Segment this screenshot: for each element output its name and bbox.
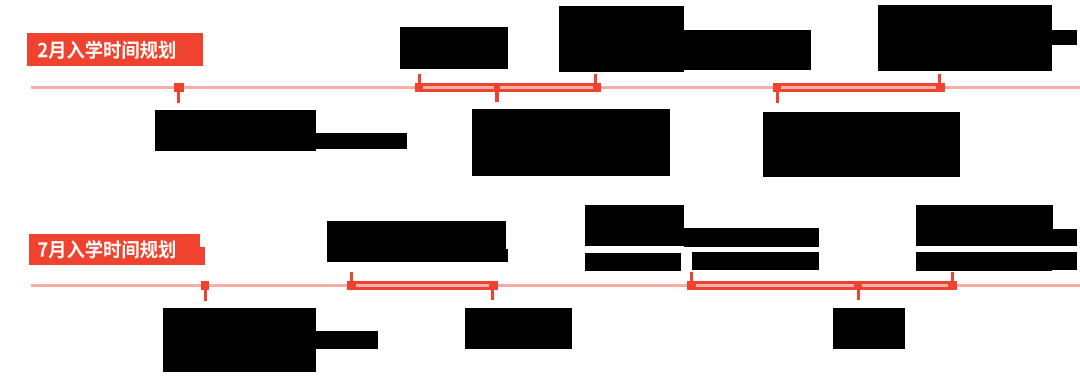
timeline 1 label text: 2月入学时间规划	[27, 33, 203, 67]
timeline 2 range bracket B3 body	[347, 281, 498, 290]
bracket B2 left stem down	[776, 92, 779, 103]
bracket B1 right tick up	[594, 74, 597, 84]
timeline 2 baseline (pink)	[31, 284, 1080, 287]
timeline 1 baseline (pink)	[31, 86, 1080, 89]
redacted caption L2 (below bracket B1)	[472, 109, 670, 175]
bracket B1 middle stem down	[495, 92, 499, 102]
bracket B3 left end cap	[347, 281, 356, 290]
timeline 2 range bracket B4 body	[687, 281, 958, 290]
timeline 2 label plate tab	[199, 247, 205, 266]
timeline 2 milestone marker M2 square	[201, 281, 209, 290]
bracket B4 middle stem down	[857, 290, 860, 301]
redacted block E1	[916, 205, 1053, 246]
redacted caption G2 (below bracket B3)	[465, 308, 572, 350]
timeline 2 milestone marker M2 stem	[204, 290, 207, 301]
redacted block D2	[684, 228, 819, 247]
bracket B4 middle divider cap	[854, 283, 862, 290]
bracket B2 left end cap	[773, 83, 782, 92]
bracket B2 right tick up	[938, 74, 941, 83]
timeline 1 label plate: 2月入学时间规划	[27, 33, 203, 66]
redacted caption L3 (below bracket B2)	[763, 112, 960, 177]
bracket B1 left end cap	[415, 83, 423, 92]
redacted block D1	[585, 205, 684, 246]
bracket B4 left tick up	[690, 272, 693, 281]
bracket B4 right end cap	[948, 281, 957, 290]
redacted block C2 tab	[1052, 30, 1077, 45]
bracket B4 right tick up	[951, 272, 954, 281]
redacted caption G1b continuation	[316, 331, 379, 349]
redacted block E2 tab	[1053, 229, 1077, 246]
redacted caption L1a (below marker M1)	[155, 110, 316, 151]
redacted block D4	[692, 252, 819, 270]
timeline 1 milestone marker M1 square	[174, 83, 184, 92]
bracket B3 left tick up	[350, 272, 353, 282]
redacted block F tab	[506, 249, 509, 261]
timeline 2 label plate: 7月入学时间规划	[29, 234, 200, 265]
redacted block A (above bracket B1 left)	[400, 27, 508, 69]
redacted block E4 tab	[1052, 252, 1077, 270]
bracket B1 left tick up	[418, 74, 421, 84]
redacted block D3	[585, 253, 681, 271]
timeline 1 milestone marker M1 stem	[177, 92, 180, 103]
timeline 1 range bracket B2 body	[773, 83, 945, 92]
redacted block B1a (above bracket B1 right)	[559, 6, 684, 72]
bracket B4 left end cap	[687, 281, 696, 290]
bracket B3 right stem down	[491, 290, 494, 301]
bracket B1 right end cap	[593, 83, 601, 92]
timeline 1 range bracket B1 body	[415, 83, 601, 92]
bracket B3 right end cap	[489, 281, 498, 290]
redacted caption G1a (below marker M2)	[163, 308, 316, 372]
bracket B2 right end cap	[936, 83, 945, 92]
redacted block F (above bracket B3)	[327, 221, 506, 262]
timeline 2 label text: 7月入学时间规划	[29, 234, 200, 267]
bracket B1 middle divider cap	[494, 85, 500, 92]
redacted caption L1b continuation	[316, 133, 407, 149]
redacted caption G3 (below bracket B4)	[833, 308, 905, 349]
redacted block C1 (above bracket B2 right)	[878, 5, 1052, 71]
redacted block E3	[916, 252, 1053, 272]
redacted block B1b continuation	[684, 30, 811, 70]
